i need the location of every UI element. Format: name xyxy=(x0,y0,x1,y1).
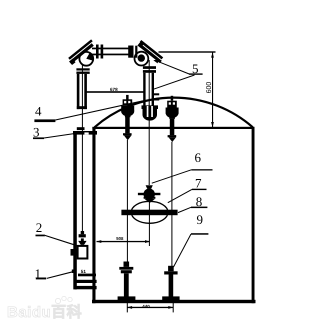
bottom flange bar 1 xyxy=(78,274,96,277)
callout 5 leader a xyxy=(156,61,189,74)
callout 4 leader xyxy=(55,100,145,120)
left flange tip foot xyxy=(69,59,75,65)
svg-text:8: 8 xyxy=(196,194,203,209)
left elbow wedge xyxy=(86,53,93,61)
left support foot xyxy=(118,296,136,300)
callout 1 leader xyxy=(47,271,75,278)
right bushing cap dot 2 xyxy=(173,102,175,104)
right bushing cap xyxy=(167,101,177,108)
left down pipe bottom end xyxy=(77,106,87,109)
tank bottom xyxy=(92,300,256,303)
svg-text:508: 508 xyxy=(116,236,124,241)
dim 678 line xyxy=(87,91,145,93)
clamp bar (item 8) xyxy=(121,210,177,216)
svg-text:600: 600 xyxy=(206,82,213,94)
svg-text:4: 4 xyxy=(35,103,42,118)
left bushing pin xyxy=(126,95,129,100)
horizontal pipe right flange block xyxy=(128,46,133,58)
drain valve handle (item 2 target) xyxy=(79,234,86,237)
bell fitting xyxy=(142,105,159,120)
gauge pipe centerline xyxy=(82,64,83,234)
left down pipe wall left xyxy=(77,74,80,109)
watermark baidu xyxy=(7,296,82,321)
right support T bar xyxy=(164,271,177,274)
svg-text:2: 2 xyxy=(36,220,43,235)
dim 440 right extension xyxy=(173,303,174,312)
dim 600 vertical line xyxy=(212,52,213,127)
dim 600 top arrow xyxy=(211,52,214,57)
callout 5 underline xyxy=(189,73,203,74)
right bushing body xyxy=(166,108,179,119)
central pipe right tab 1 xyxy=(154,93,159,95)
left support bar 2 xyxy=(121,270,132,273)
right bushing cap dot 1 xyxy=(169,102,171,104)
relay valve side bar xyxy=(138,193,161,195)
left bushing cap dot 2 xyxy=(128,101,130,103)
right elbow circle xyxy=(135,52,149,66)
svg-text:9: 9 xyxy=(197,212,204,227)
svg-text:Baidu百科: Baidu百科 xyxy=(7,304,82,321)
horizontal pipe right flange bar xyxy=(135,46,137,58)
bottom flange bar 3 xyxy=(75,286,97,289)
gauge pipe top connection tick xyxy=(77,127,85,130)
right rod xyxy=(171,142,172,267)
bottom flange bar 2 xyxy=(75,280,97,283)
dim 440 left arrow xyxy=(127,306,132,309)
callout 9 leader xyxy=(174,234,192,267)
right bushing foot tick xyxy=(168,135,177,137)
callout 9 underline xyxy=(191,233,208,235)
svg-text:3: 3 xyxy=(33,124,40,139)
callout 8 underline xyxy=(191,207,207,209)
callout 5 leader b xyxy=(153,75,194,89)
left support T bar xyxy=(119,267,133,270)
gauge pipe left wall xyxy=(73,131,77,289)
left 45deg flange main plate xyxy=(67,39,96,65)
callout 8 leader xyxy=(178,207,191,212)
central pipe centerline xyxy=(149,60,150,185)
right 45deg flange main plate xyxy=(137,40,164,63)
svg-text:440: 440 xyxy=(142,304,150,309)
callout 7 leader xyxy=(168,189,192,202)
dim 600 bottom arrow xyxy=(211,122,214,127)
bell fitting white stripe 2 xyxy=(151,106,153,117)
gauge pipe top connection bar (item 3 target) xyxy=(73,131,97,135)
dim 440 right arrow xyxy=(168,306,173,309)
right support block xyxy=(168,266,174,272)
left bushing body xyxy=(121,106,134,117)
horizontal pipe lower line xyxy=(92,54,130,56)
callout 4 underline xyxy=(34,119,55,122)
callout 7 underline xyxy=(192,189,207,190)
gauge pipe top connection notch xyxy=(84,132,88,134)
right elbow lower flange bar 1 xyxy=(143,66,156,69)
left bushing foot tick xyxy=(123,133,132,135)
tank dome arc xyxy=(95,98,253,128)
right support post xyxy=(169,275,174,297)
right flange tip foot xyxy=(138,41,145,48)
left bushing foot triangle xyxy=(124,135,132,140)
svg-text:7: 7 xyxy=(195,175,202,190)
left support block xyxy=(124,262,130,267)
relay valve ball xyxy=(144,189,155,200)
dim 600 top line xyxy=(159,51,216,52)
dim 508 extension line xyxy=(149,202,150,246)
callout 2 underline xyxy=(36,235,45,237)
drain valve pin xyxy=(81,231,84,234)
central pipe right tab 2 xyxy=(154,98,159,100)
left rod xyxy=(127,140,128,262)
left elbow circle xyxy=(79,52,93,66)
right bushing foot triangle xyxy=(169,137,177,142)
float ellipse (item 7) xyxy=(131,201,168,223)
tank left wall xyxy=(92,127,95,303)
callout 6 leader xyxy=(152,170,192,183)
drain valve box xyxy=(78,246,88,259)
pipe wall tick xyxy=(72,270,75,274)
central pipe wall right xyxy=(152,73,154,106)
right elbow wedge xyxy=(138,54,145,61)
callout 3 leader xyxy=(44,133,80,138)
svg-text:678: 678 xyxy=(110,87,118,92)
svg-text:51: 51 xyxy=(81,269,87,274)
relay valve base xyxy=(144,197,156,199)
right 45deg flange outer stripe xyxy=(140,40,164,59)
svg-text:6: 6 xyxy=(195,150,202,165)
left 45deg flange outer stripe xyxy=(68,39,93,59)
callout 3 underline xyxy=(33,137,44,139)
horizontal pipe left flange bar 2 xyxy=(101,45,104,59)
tank right wall xyxy=(252,127,255,303)
left elbow lower flange bar 1 xyxy=(76,68,89,70)
drain valve side blob xyxy=(71,249,78,256)
dim 508 line xyxy=(97,241,150,242)
tank top plate xyxy=(92,127,254,129)
drain valve funnel xyxy=(81,238,84,241)
right support foot xyxy=(162,296,179,300)
left support post xyxy=(124,273,129,297)
left bushing cap xyxy=(123,99,133,106)
dim 508 right arrow xyxy=(145,240,150,243)
dim 440 left extension xyxy=(127,303,128,312)
bell centerline over xyxy=(149,106,150,120)
horizontal pipe left flange bar 1 xyxy=(96,45,99,59)
right elbow lower flange bar 2 xyxy=(143,70,156,73)
callout 2 leader xyxy=(45,235,77,245)
bell fitting white stripe 1 xyxy=(147,106,149,117)
left down pipe wall right xyxy=(84,74,87,109)
right bushing pin xyxy=(171,96,174,101)
relay valve cap (item 6) xyxy=(146,185,153,189)
callout 1 underline xyxy=(36,278,46,280)
central pipe wall left xyxy=(143,73,145,106)
horizontal pipe upper line xyxy=(92,48,130,50)
right bushing stem xyxy=(170,119,175,136)
dim 440 line xyxy=(127,307,173,308)
left bushing stem xyxy=(125,117,130,133)
left elbow lower flange bar 2 xyxy=(76,72,89,74)
dim 508 left arrow xyxy=(97,240,102,243)
callout 6 underline xyxy=(191,169,212,170)
left bushing cap dot 1 xyxy=(124,101,126,103)
